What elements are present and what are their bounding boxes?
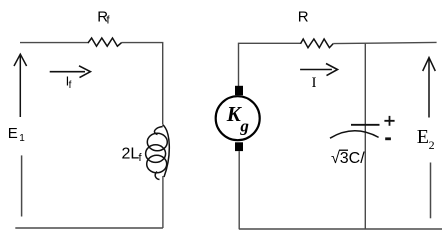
svg-text:2L: 2L bbox=[122, 146, 140, 163]
svg-text:R: R bbox=[298, 8, 309, 25]
capacitor top plate bbox=[351, 124, 380, 126]
generator bottom brush bbox=[235, 142, 243, 151]
capacitor curved plate bbox=[330, 131, 379, 138]
resistor Rf bbox=[88, 38, 122, 46]
wire left-loop bottom bbox=[15, 227, 163, 229]
label plus polarity bbox=[384, 116, 394, 126]
svg-text:√3C/: √3C/ bbox=[331, 150, 365, 167]
generator top brush bbox=[235, 86, 243, 95]
svg-text:2: 2 bbox=[429, 138, 435, 152]
wire right-loop bottom bbox=[239, 228, 442, 230]
wire left-loop right vertical lower bbox=[162, 176, 164, 228]
wire left-loop top-left segment bbox=[20, 42, 89, 44]
label sqrt3C capacitor value bbox=[331, 150, 365, 167]
wire capacitor branch vertical bbox=[364, 43, 366, 229]
label minus polarity bbox=[385, 137, 391, 140]
generator U1 circle bbox=[216, 96, 260, 140]
I current arrow bbox=[300, 64, 337, 76]
svg-text:1: 1 bbox=[19, 133, 25, 144]
label E1 bbox=[8, 125, 25, 144]
E1 voltage arrow bbox=[14, 54, 27, 117]
E2 voltage arrow bbox=[423, 58, 436, 118]
wire generator branch vertical upper bbox=[239, 43, 301, 86]
If current arrow bbox=[50, 66, 91, 78]
label 2Lf bbox=[122, 146, 143, 164]
svg-text:E: E bbox=[8, 125, 18, 142]
svg-text:f: f bbox=[139, 152, 143, 164]
svg-text:g: g bbox=[239, 117, 249, 136]
label Rf bbox=[97, 8, 110, 26]
resistor R bbox=[301, 39, 334, 48]
svg-text:f: f bbox=[69, 80, 72, 91]
E1 lower lead line bbox=[21, 155, 23, 216]
label Kg bbox=[226, 102, 250, 136]
wire left-loop top-right and right vertical upper bbox=[122, 43, 163, 124]
label If bbox=[66, 73, 72, 91]
label E2 bbox=[417, 126, 435, 152]
wire generator branch vertical lower bbox=[238, 151, 240, 229]
svg-text:f: f bbox=[107, 15, 111, 27]
inductor 2Lf bbox=[146, 125, 170, 180]
svg-text:I: I bbox=[312, 75, 317, 91]
wire right-loop top right segment bbox=[333, 42, 436, 43]
svg-text:E: E bbox=[417, 126, 429, 148]
E2 lower lead line bbox=[430, 163, 432, 219]
